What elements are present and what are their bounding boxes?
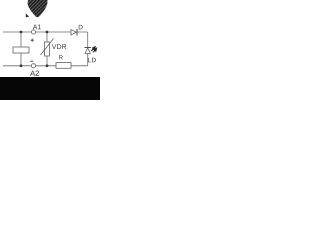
svg-text:A1: A1 [33, 24, 42, 31]
svg-text:D: D [78, 24, 83, 31]
svg-text:R: R [59, 54, 64, 61]
svg-text:A2: A2 [30, 69, 39, 78]
svg-text:VDR: VDR [52, 44, 67, 51]
svg-text:LD: LD [88, 57, 97, 64]
